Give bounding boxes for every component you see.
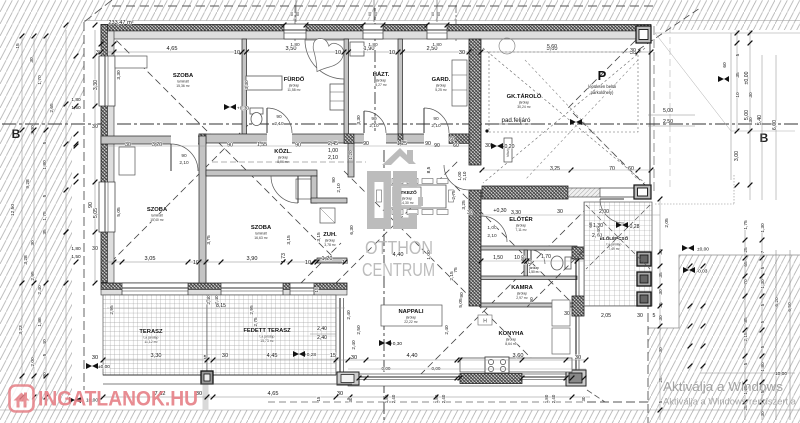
ext wall top outer band xyxy=(101,25,651,32)
svg-text:1,80: 1,80 xyxy=(368,42,378,48)
svg-text:3,00: 3,00 xyxy=(734,151,740,161)
terasz lower edge line 2 xyxy=(103,383,352,385)
svg-text:5: 5 xyxy=(653,313,656,319)
svg-text:90: 90 xyxy=(181,153,187,159)
svg-text:2,00: 2,00 xyxy=(30,357,36,367)
svg-text:parkolóhely): parkolóhely) xyxy=(591,90,614,95)
elolepcso west glass xyxy=(575,259,577,296)
window W2 hazt top xyxy=(363,24,383,39)
int wall szoba1 east xyxy=(199,136,206,283)
fedett terasz tiles xyxy=(207,295,336,375)
szoba3 wardrobe xyxy=(119,147,135,175)
ticks right columns xyxy=(735,31,740,36)
int wall gard east thick upper xyxy=(469,39,481,165)
door arc etkezo-gk xyxy=(444,165,469,190)
door arc gard xyxy=(424,108,449,133)
svg-text:B: B xyxy=(760,131,769,145)
svg-text:(épületen belüli: (épületen belüli xyxy=(588,84,616,89)
etkezo label box xyxy=(393,187,421,206)
gard shelf xyxy=(452,60,467,106)
svg-text:30: 30 xyxy=(92,355,98,361)
svg-text:5,27 m²: 5,27 m² xyxy=(375,83,387,87)
ingatlanok.hu logo house icon xyxy=(10,386,34,412)
svg-text:járólap: járólap xyxy=(405,316,416,320)
svg-text:15,40 m²: 15,40 m² xyxy=(150,218,164,222)
svg-text:1,30: 1,30 xyxy=(760,279,766,289)
svg-text:laminált: laminált xyxy=(177,80,189,84)
int wall szoba2 north xyxy=(206,170,317,176)
svg-text:30: 30 xyxy=(92,246,98,252)
left inner dim column xyxy=(94,30,96,283)
svg-text:60: 60 xyxy=(296,12,300,16)
svg-text:5,05: 5,05 xyxy=(93,208,99,218)
svg-text:5: 5 xyxy=(42,141,48,144)
int wall zuh west xyxy=(311,176,317,203)
svg-text:5,25 m²: 5,25 m² xyxy=(435,88,447,92)
svg-text:1,70: 1,70 xyxy=(541,254,551,260)
door arc furdo xyxy=(267,108,292,133)
plot boundary NW diagonal dashed xyxy=(84,0,112,22)
dim line bottom glass row xyxy=(348,368,586,370)
furdo corner tub xyxy=(305,40,344,79)
svg-text:GK.TÁROLÓ: GK.TÁROLÓ xyxy=(507,92,542,100)
svg-text:3,20: 3,20 xyxy=(152,142,162,148)
svg-text:90: 90 xyxy=(459,292,465,298)
svg-text:P: P xyxy=(598,68,607,83)
window W3 gard top xyxy=(427,24,447,39)
elolepcso pillar 1 xyxy=(637,252,651,266)
window W4 szoba1 left xyxy=(99,56,115,106)
elolepcso pillar 2 xyxy=(637,272,651,286)
plot boundary SE vertical dashed xyxy=(647,300,649,423)
szoba2 closet xyxy=(296,179,312,199)
svg-text:1,50: 1,50 xyxy=(493,255,503,261)
svg-text:10: 10 xyxy=(305,260,311,266)
svg-text:3,25: 3,25 xyxy=(461,200,467,210)
garage bottom wall solid left xyxy=(482,186,568,199)
int wall furdo west xyxy=(242,39,247,134)
corridor dim line xyxy=(101,145,469,147)
svg-text:3,30: 3,30 xyxy=(116,70,122,80)
svg-text:1,50: 1,50 xyxy=(71,254,81,260)
svg-text:ELŐTÉR: ELŐTÉR xyxy=(509,215,533,223)
svg-text:60: 60 xyxy=(437,12,441,16)
ticks top row extra xyxy=(99,42,104,47)
svg-text:+0,30: +0,30 xyxy=(493,208,506,214)
int wall furdo east xyxy=(344,39,349,134)
svg-text:járólap: járólap xyxy=(375,79,386,83)
svg-text:15,36 m²: 15,36 m² xyxy=(176,84,190,88)
garage bottom pillar right xyxy=(634,185,651,199)
svg-text:60: 60 xyxy=(722,62,728,68)
ticks left columns xyxy=(93,23,98,28)
plot boundary left dashed xyxy=(83,22,85,390)
garage east open edge xyxy=(649,43,651,185)
roof garage NE xyxy=(566,25,651,110)
top axis vertical lines xyxy=(295,0,297,22)
svg-text:70: 70 xyxy=(743,279,749,285)
jamb block gard west xyxy=(398,134,403,144)
svg-text:10: 10 xyxy=(514,255,520,261)
svg-text:2,40: 2,40 xyxy=(317,326,327,332)
svg-text:30: 30 xyxy=(351,355,357,361)
svg-text:5,00: 5,00 xyxy=(744,110,750,120)
svg-text:járólap: járólap xyxy=(516,292,527,296)
plot inner gray dashed right xyxy=(669,26,671,190)
svg-text:30: 30 xyxy=(760,411,766,417)
svg-text:3,28: 3,28 xyxy=(23,255,29,265)
pad.feljaro dot xyxy=(485,129,488,132)
svg-text:90: 90 xyxy=(227,143,233,149)
svg-text:+0,20: +0,20 xyxy=(501,144,514,150)
bottom wall SW corner block xyxy=(337,372,359,385)
svg-text:3,78 m²: 3,78 m² xyxy=(324,243,336,247)
door arc szoba2 xyxy=(271,176,298,203)
int wall wc north xyxy=(481,246,577,250)
svg-text:1,30: 1,30 xyxy=(760,223,766,233)
svg-text:30: 30 xyxy=(459,50,465,56)
ticks bottom rows xyxy=(120,260,125,265)
svg-text:3,15: 3,15 xyxy=(286,235,292,245)
dim line top row xyxy=(101,51,651,53)
svg-text:1,80: 1,80 xyxy=(290,42,300,48)
svg-text:4,40: 4,40 xyxy=(407,353,418,359)
int wall kamra north xyxy=(481,276,577,280)
dim line terasz row xyxy=(103,359,586,361)
svg-text:HÁZT.: HÁZT. xyxy=(373,71,390,78)
svg-text:±0,00: ±0,00 xyxy=(697,247,709,253)
svg-text:70: 70 xyxy=(609,166,615,172)
etkezo table xyxy=(384,185,446,208)
svg-text:2,40: 2,40 xyxy=(37,285,43,295)
window W7 szoba2 bottom xyxy=(221,283,283,295)
svg-text:11,12 m²: 11,12 m² xyxy=(144,340,158,344)
svg-text:-0,03: -0,03 xyxy=(697,269,708,275)
roof konyha diagonal xyxy=(420,211,584,375)
svg-text:2,75: 2,75 xyxy=(451,190,457,200)
site hatch top strip xyxy=(0,0,800,21)
svg-text:2,95: 2,95 xyxy=(249,305,255,315)
svg-text:KONYHA: KONYHA xyxy=(498,331,524,337)
svg-text:30: 30 xyxy=(581,396,586,401)
svg-text:4,65: 4,65 xyxy=(268,391,279,397)
svg-text:2,10: 2,10 xyxy=(328,155,338,161)
svg-text:10: 10 xyxy=(735,92,741,98)
door arc wc xyxy=(531,250,545,264)
svg-text:2,40: 2,40 xyxy=(441,394,446,403)
plot SE corner diagonal dashed xyxy=(587,390,605,402)
svg-text:±0,00: ±0,00 xyxy=(744,71,750,84)
svg-text:5: 5 xyxy=(760,303,766,306)
svg-text:1,20: 1,20 xyxy=(348,150,354,160)
garage bottom opening lines xyxy=(600,187,634,189)
ext wall left outer band xyxy=(101,25,108,283)
axis line window 1 xyxy=(294,5,296,42)
svg-text:1,00: 1,00 xyxy=(426,250,432,260)
svg-text:85: 85 xyxy=(743,317,749,323)
svg-text:5: 5 xyxy=(42,353,48,356)
svg-text:járólap: járólap xyxy=(324,239,335,243)
svg-text:30: 30 xyxy=(658,347,664,353)
svg-text:1,55: 1,55 xyxy=(257,142,267,148)
svg-text:SZOBA: SZOBA xyxy=(251,225,272,231)
svg-text:1,80: 1,80 xyxy=(760,362,766,372)
elolepcso pillar 3 xyxy=(637,292,651,306)
svg-text:5,40: 5,40 xyxy=(757,115,763,125)
furdo cabinet xyxy=(246,76,282,90)
svg-text:65: 65 xyxy=(743,261,749,267)
svg-text:2,40: 2,40 xyxy=(346,310,352,320)
roof terasz diag xyxy=(207,243,341,377)
hoszig box xyxy=(504,138,512,162)
furdo toilet xyxy=(250,108,263,114)
svg-text:1,80: 1,80 xyxy=(71,246,81,252)
svg-text:2,00: 2,00 xyxy=(599,209,609,215)
svg-text:3,90: 3,90 xyxy=(247,256,258,262)
site hatch left strip xyxy=(0,0,112,410)
svg-text:10: 10 xyxy=(234,50,240,56)
svg-text:10,00: 10,00 xyxy=(775,371,787,377)
konyha east glass xyxy=(575,316,577,370)
int wall hazt east xyxy=(398,39,403,134)
svg-text:TERASZ: TERASZ xyxy=(139,329,163,335)
svg-text:t.a járólap: t.a járólap xyxy=(144,336,159,340)
svg-text:6,30: 6,30 xyxy=(349,225,355,235)
svg-text:14,30 m²: 14,30 m² xyxy=(400,201,414,205)
svg-text:2,10: 2,10 xyxy=(462,171,467,180)
window W8 zuh bottom xyxy=(290,283,314,295)
svg-text:2,10: 2,10 xyxy=(336,183,342,193)
right lower dim columns xyxy=(659,200,661,420)
int wall szoba1 north xyxy=(101,136,199,144)
dim line terasz 8,15 row xyxy=(107,307,345,309)
svg-text:laminált: laminált xyxy=(255,232,267,236)
svg-text:30: 30 xyxy=(748,92,754,98)
svg-text:5,05: 5,05 xyxy=(458,298,464,308)
svg-text:járólap: járólap xyxy=(277,156,288,160)
svg-text:Aktiválja a Windows rendszert: Aktiválja a Windows rendszert a xyxy=(663,397,797,407)
ext wall bottom-left outer band xyxy=(101,283,347,290)
kitchen east counter xyxy=(552,300,570,326)
svg-text:3,25: 3,25 xyxy=(550,166,560,172)
dotted plot rect corner xyxy=(733,175,735,204)
int wall gard east thick lower xyxy=(469,190,481,306)
window W6 szoba3 bottom xyxy=(122,283,188,295)
svg-text:+0,30: +0,30 xyxy=(390,341,402,347)
roof elolepcso diagonal 2 xyxy=(586,205,650,269)
svg-text:60: 60 xyxy=(368,12,372,16)
svg-text:FEDETT TERASZ: FEDETT TERASZ xyxy=(243,328,291,334)
terasz corner post xyxy=(201,371,213,384)
bottom wall glass 1 xyxy=(359,376,460,378)
svg-text:3,30: 3,30 xyxy=(244,80,250,90)
svg-text:60: 60 xyxy=(290,12,294,16)
svg-text:35: 35 xyxy=(735,72,741,78)
door arc hazt xyxy=(364,111,386,133)
garage circle mark xyxy=(499,38,515,54)
svg-text:2,40: 2,40 xyxy=(206,295,212,305)
svg-text:0,00: 0,00 xyxy=(432,366,441,371)
parking X diag 4 xyxy=(525,60,638,180)
parking X diag 2 xyxy=(483,48,645,183)
section line A-A bottom xyxy=(383,150,385,420)
int wall kamra south xyxy=(481,303,572,307)
svg-text:60: 60 xyxy=(374,12,378,16)
svg-text:GARD.: GARD. xyxy=(432,77,451,83)
svg-text:2,95: 2,95 xyxy=(30,271,36,281)
svg-text:Aktiválja a Windows: Aktiválja a Windows xyxy=(663,379,784,394)
svg-text:15: 15 xyxy=(316,396,321,401)
svg-text:2,40: 2,40 xyxy=(551,394,556,403)
svg-text:5: 5 xyxy=(743,362,749,365)
level marks xyxy=(224,104,236,110)
szoba1 wardrobe xyxy=(115,56,147,68)
svg-text:6,00: 6,00 xyxy=(772,120,778,130)
svg-text:2,10: 2,10 xyxy=(274,121,284,127)
svg-text:5: 5 xyxy=(42,194,48,197)
section line A-A top xyxy=(374,8,376,140)
svg-text:233,47 m²: 233,47 m² xyxy=(108,20,133,26)
ticks top outer wall xyxy=(282,23,287,28)
svg-text:3,75: 3,75 xyxy=(206,235,212,245)
roof garage exit xyxy=(638,8,700,50)
int wall stub korridor-etkezo xyxy=(348,143,354,177)
svg-text:4,65: 4,65 xyxy=(167,46,178,52)
far-left dim chains xyxy=(21,35,23,390)
svg-text:1,50 m²: 1,50 m² xyxy=(529,270,540,274)
garage 3,25 dim line xyxy=(482,169,651,171)
garage bottom porch piece xyxy=(568,188,600,197)
svg-text:7,49 m²: 7,49 m² xyxy=(608,247,620,251)
svg-text:8,15: 8,15 xyxy=(216,303,226,309)
svg-text:90: 90 xyxy=(371,116,377,122)
svg-text:B: B xyxy=(12,127,21,141)
svg-text:járólap: járólap xyxy=(518,101,529,105)
svg-text:1,80: 1,80 xyxy=(42,160,48,170)
svg-text:5: 5 xyxy=(760,266,766,269)
svg-text:ZUH.: ZUH. xyxy=(323,232,337,238)
roof hip SW xyxy=(103,125,248,270)
top plot dashed line xyxy=(112,5,654,7)
svg-text:30: 30 xyxy=(30,240,36,246)
svg-text:10: 10 xyxy=(389,50,395,56)
svg-text:±0,00: ±0,00 xyxy=(98,364,110,370)
svg-text:2,10: 2,10 xyxy=(431,123,441,129)
svg-text:2,40: 2,40 xyxy=(391,394,396,403)
svg-text:1,80: 1,80 xyxy=(544,394,549,403)
nappali label box xyxy=(381,305,442,326)
parking dotted rect xyxy=(489,52,638,132)
svg-text:40: 40 xyxy=(42,339,48,345)
svg-text:1,00: 1,00 xyxy=(328,148,338,154)
svg-text:30: 30 xyxy=(637,313,643,319)
svg-text:60: 60 xyxy=(628,166,634,172)
svg-text:3,60: 3,60 xyxy=(513,353,524,359)
svg-text:2,15: 2,15 xyxy=(743,332,749,342)
svg-text:2,50: 2,50 xyxy=(663,119,673,125)
zuh shower tray xyxy=(320,208,335,223)
svg-text:2,95: 2,95 xyxy=(109,305,115,315)
bottom wall solid piece under stove xyxy=(460,374,522,384)
svg-text:ELŐLÉPCSŐ: ELŐLÉPCSŐ xyxy=(600,234,629,241)
svg-text:30: 30 xyxy=(125,142,131,148)
svg-text:4,45: 4,45 xyxy=(267,353,278,359)
svg-text:30: 30 xyxy=(92,124,98,130)
roof valley NW corner xyxy=(101,25,341,265)
svg-text:30: 30 xyxy=(658,315,664,321)
svg-text:2,10: 2,10 xyxy=(487,233,497,239)
svg-text:22,22 m²: 22,22 m² xyxy=(404,320,418,324)
right plot thin lines xyxy=(655,32,800,34)
svg-text:NAPPALI: NAPPALI xyxy=(398,309,423,315)
int wall zuh north xyxy=(311,198,347,203)
svg-text:30: 30 xyxy=(658,289,664,295)
svg-text:2,40: 2,40 xyxy=(351,340,357,350)
svg-text:16,63 m²: 16,63 m² xyxy=(254,236,268,240)
svg-text:1,00: 1,00 xyxy=(487,225,497,231)
svg-text:90: 90 xyxy=(88,202,94,208)
svg-text:laminált: laminált xyxy=(151,214,163,218)
svg-text:INGATLANOK.HU: INGATLANOK.HU xyxy=(38,387,198,411)
roof valley etkezo b xyxy=(250,161,458,369)
svg-text:5,05: 5,05 xyxy=(116,207,122,217)
svg-text:2,50: 2,50 xyxy=(356,325,362,335)
kitchen counter H mark xyxy=(478,315,492,325)
svg-text:CENTRUM: CENTRUM xyxy=(362,259,435,280)
hazt washer xyxy=(350,42,364,56)
svg-text:10: 10 xyxy=(335,50,341,56)
svg-text:30: 30 xyxy=(630,48,636,54)
nappali-konyha bottom wall base xyxy=(348,374,585,386)
post shadow band below terasz xyxy=(203,384,209,410)
svg-text:35: 35 xyxy=(658,272,664,278)
svg-text:15: 15 xyxy=(314,287,320,293)
svg-text:90: 90 xyxy=(276,114,282,120)
svg-text:1,80: 1,80 xyxy=(432,42,442,48)
svg-text:3,05: 3,05 xyxy=(145,256,156,262)
right dim columns xyxy=(736,30,738,130)
svg-text:25: 25 xyxy=(743,247,749,253)
svg-text:1,75: 1,75 xyxy=(743,220,749,230)
svg-text:90: 90 xyxy=(433,116,439,122)
corridor centerline dashed xyxy=(212,161,366,163)
kitchen counter xyxy=(460,358,572,372)
svg-text:1,80: 1,80 xyxy=(71,97,81,103)
svg-text:5: 5 xyxy=(760,320,766,323)
svg-text:30: 30 xyxy=(575,355,581,361)
svg-text:15: 15 xyxy=(330,353,336,359)
roof kamra diagonal xyxy=(455,186,584,315)
svg-text:járólap: járólap xyxy=(505,338,516,342)
svg-text:pad.feljáró: pad.feljáró xyxy=(502,117,531,124)
terasz tiles xyxy=(103,295,207,375)
int wall corridor north xyxy=(199,134,469,143)
svg-text:30: 30 xyxy=(29,57,35,63)
wc east block xyxy=(572,247,584,259)
level markers right bottom xyxy=(682,245,694,251)
svg-text:7: 7 xyxy=(760,250,766,253)
axis line window 3 xyxy=(455,5,457,42)
svg-text:3,30: 3,30 xyxy=(30,125,36,135)
svg-text:60: 60 xyxy=(431,12,435,16)
roof terasz diag2 xyxy=(130,300,207,377)
hatch boundary bottom strip xyxy=(0,409,800,411)
svg-text:FÜRDŐ: FÜRDŐ xyxy=(284,76,305,83)
svg-text:2,10: 2,10 xyxy=(179,160,189,166)
jamb block furdo east xyxy=(344,134,354,144)
svg-text:2,40: 2,40 xyxy=(596,227,602,237)
roof kamra diagonal 2 xyxy=(527,250,584,307)
